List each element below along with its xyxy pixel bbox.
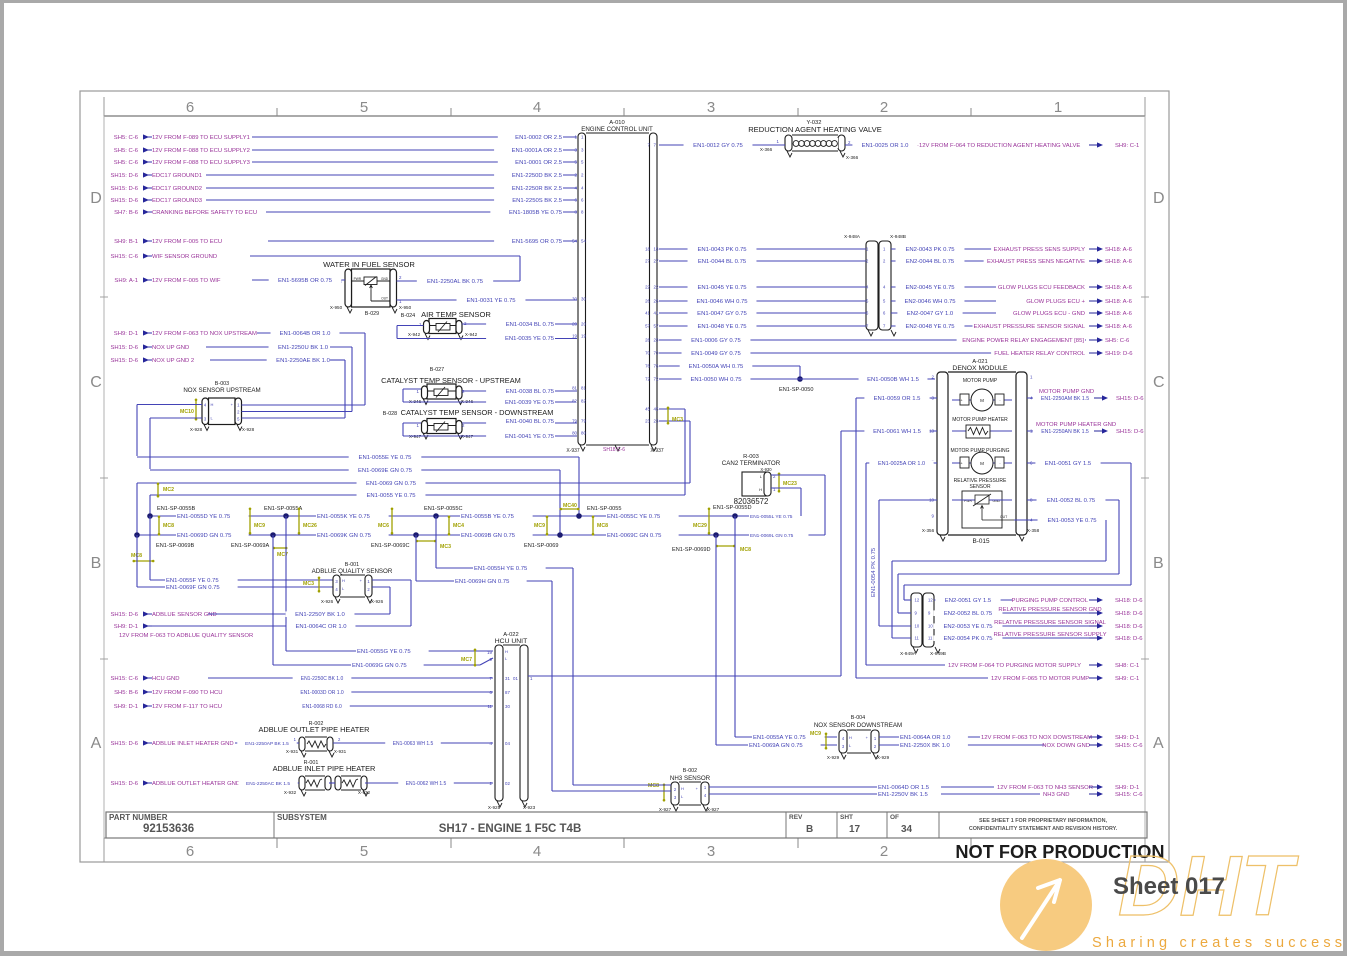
- drawing frame: [80, 91, 1169, 862]
- splice EN1-SP-0055: [576, 506, 621, 519]
- wire EN1-2250D: [206, 172, 577, 179]
- svg-text:SH15: D-6: SH15: D-6: [110, 612, 138, 618]
- wire label EN1-0055B: [460, 513, 533, 520]
- svg-text:SH18: D-6: SH18: D-6: [1115, 624, 1143, 630]
- denox pin numbers: [929, 375, 1035, 523]
- relative pressure sensor symbol: [952, 478, 1033, 528]
- svg-text:EN1-0059 OR 1.5: EN1-0059 OR 1.5: [874, 396, 922, 402]
- wire EN1-0025A purging supply: [866, 461, 937, 665]
- wire EN1-2250AP: [235, 741, 299, 747]
- svg-text:PWR: PWR: [354, 277, 362, 281]
- svg-text:CAN2 TERMINATOR: CAN2 TERMINATOR: [722, 460, 781, 467]
- node ADBLUE OUTLET HEATER GND input: [110, 780, 240, 787]
- svg-text:MC8: MC8: [740, 547, 751, 553]
- node 12V from F-063 to adblue quality sensor: [119, 633, 253, 639]
- svg-text:MC8: MC8: [163, 523, 174, 529]
- svg-text:B: B: [1153, 555, 1164, 572]
- svg-text:GLOW PLUGS ECU - GND: GLOW PLUGS ECU - GND: [1013, 311, 1085, 317]
- adblue quality sensor B-001: [312, 562, 393, 604]
- wire EN1-0055 to ECU pin 45: [150, 409, 685, 516]
- svg-text:EN1-0055K YE 0.75: EN1-0055K YE 0.75: [317, 514, 371, 520]
- svg-text:EN1-2250S BK 2.5: EN1-2250S BK 2.5: [512, 198, 562, 204]
- wire label EN1-0055D: [176, 513, 249, 520]
- svg-text:EN1-0001A OR 2.5: EN1-0001A OR 2.5: [512, 148, 563, 154]
- svg-text:18: 18: [645, 247, 650, 252]
- svg-text:82: 82: [581, 399, 586, 404]
- svg-text:EN1-1805B YE 0.75: EN1-1805B YE 0.75: [509, 210, 563, 216]
- wire EN2-0053 RELATIVE PRESSURE SENSOR SIGNAL: [915, 619, 1144, 630]
- svg-text:HCU GND: HCU GND: [152, 676, 180, 682]
- node ADBLUE SENSOR GND input: [110, 611, 216, 618]
- svg-text:SH18: D-6: SH18: D-6: [1115, 611, 1143, 617]
- column scale numbers top: [186, 99, 1062, 116]
- node 12V FROM F-090 TO HCU input: [114, 689, 222, 696]
- svg-text:SH9: D-1: SH9: D-1: [1115, 735, 1139, 741]
- svg-text:72: 72: [645, 377, 650, 382]
- svg-text:EN2-0051 GY 1.5: EN2-0051 GY 1.5: [945, 598, 992, 604]
- svg-text:EN1-0034 BL 0.75: EN1-0034 BL 0.75: [506, 322, 555, 328]
- svg-text:X-366: X-366: [760, 147, 773, 152]
- svg-text:NOX DOWN GND: NOX DOWN GND: [1042, 743, 1090, 749]
- svg-text:EN1-0006 GY 0.75: EN1-0006 GY 0.75: [691, 338, 741, 344]
- svg-text:PURGING PUMP CONTROL: PURGING PUMP CONTROL: [1012, 598, 1089, 604]
- wire EN1-0069F to adblue quality: [137, 535, 333, 591]
- svg-text:EN1-0069D GN 0.75: EN1-0069D GN 0.75: [177, 533, 232, 539]
- row letters: [90, 190, 1164, 752]
- svg-text:EN1-SP-0055B: EN1-SP-0055B: [157, 506, 196, 512]
- wire EN1-0050: [659, 376, 800, 383]
- twisted pair marks on splice buses: [131, 503, 751, 562]
- svg-text:H: H: [342, 578, 345, 583]
- svg-text:EN2-0045 YE 0.75: EN2-0045 YE 0.75: [905, 285, 955, 291]
- svg-text:SH15: D-6: SH15: D-6: [1116, 429, 1144, 435]
- svg-text:EDC17 GROUND3: EDC17 GROUND3: [152, 198, 203, 204]
- title block: [106, 812, 1147, 838]
- wire nh3 pins left: [552, 785, 671, 791]
- svg-text:MC29: MC29: [693, 523, 707, 529]
- svg-text:EN1-0055F YE 0.75: EN1-0055F YE 0.75: [166, 578, 219, 584]
- wire nox pin3 to bus: [150, 418, 202, 469]
- svg-text:MC3: MC3: [672, 417, 683, 423]
- wire EN1-2250X: [879, 742, 1143, 749]
- wire EN1-0012: [659, 142, 785, 149]
- svg-text:EN2-0052 BL 0.75: EN2-0052 BL 0.75: [944, 611, 993, 617]
- svg-text:H: H: [849, 735, 852, 740]
- svg-text:EN1-0045 YE 0.75: EN1-0045 YE 0.75: [697, 285, 747, 291]
- svg-text:X-950: X-950: [399, 305, 412, 310]
- svg-text:D: D: [90, 190, 102, 207]
- svg-text:SH15: C-6: SH15: C-6: [1115, 792, 1143, 798]
- node 12V FROM F-005 TO ECU input: [114, 238, 222, 245]
- NOX sensor downstream B-004: [814, 715, 902, 760]
- wire EN1-0047 / EN2-0047 GLOW PLUGS ECU - GND: [659, 310, 1133, 317]
- svg-text:EN2-0053 YE 0.75: EN2-0053 YE 0.75: [943, 624, 993, 630]
- wire nox pin4 to bus: [137, 405, 202, 457]
- watermark DHT logo: [1000, 839, 1299, 951]
- svg-text:SH9: D-1: SH9: D-1: [114, 624, 138, 630]
- wire EN1-0041: [403, 423, 577, 440]
- NOX sensor upstream B-003: [183, 381, 260, 432]
- svg-text:04: 04: [505, 741, 510, 746]
- svg-text:SH9: C-1: SH9: C-1: [1115, 676, 1139, 682]
- splice EN1-SP-0050: [779, 376, 814, 393]
- svg-text:12V FROM F-090 TO HCU: 12V FROM F-090 TO HCU: [152, 690, 223, 696]
- svg-text:EN1-2250AM BK 1.5: EN1-2250AM BK 1.5: [1041, 396, 1089, 402]
- twisted pair MC2: [157, 483, 174, 498]
- svg-text:NH3 SENSOR: NH3 SENSOR: [670, 775, 711, 782]
- wire EN1-0062: [365, 781, 493, 787]
- svg-text:SH5: C-6: SH5: C-6: [1105, 338, 1130, 344]
- svg-text:12V FROM F-088 TO ECU SUPPLY3: 12V FROM F-088 TO ECU SUPPLY3: [152, 160, 251, 166]
- svg-text:EN1-0025A OR 1.0: EN1-0025A OR 1.0: [878, 461, 925, 467]
- wire EN1-2250AE nox gnd 2: [210, 357, 345, 418]
- wire EN1-0069 to ECU pin 23: [137, 421, 690, 535]
- svg-text:SH15: C-6: SH15: C-6: [110, 254, 138, 260]
- svg-text:EXHAUST PRESS SENS SUPPLY: EXHAUST PRESS SENS SUPPLY: [994, 247, 1086, 253]
- svg-text:EN1-0055E YE 0.75: EN1-0055E YE 0.75: [359, 455, 413, 461]
- svg-text:MC3: MC3: [303, 581, 314, 587]
- svg-text:SUBSYSTEM: SUBSYSTEM: [277, 813, 327, 822]
- svg-text:EN1-0069 GN 0.75: EN1-0069 GN 0.75: [366, 481, 417, 487]
- svg-text:MOTOR PUMP GND: MOTOR PUMP GND: [1039, 389, 1094, 395]
- svg-text:SH8: C-1: SH8: C-1: [1115, 663, 1139, 669]
- svg-text:CATALYST TEMP SENSOR - DOWNSTR: CATALYST TEMP SENSOR - DOWNSTREAM: [401, 408, 554, 417]
- splice EN1-SP-0069B: [134, 532, 194, 549]
- svg-text:X-949A: X-949A: [900, 651, 917, 657]
- svg-text:EN1-2250AL BK 0.75: EN1-2250AL BK 0.75: [427, 279, 484, 285]
- svg-text:41: 41: [645, 311, 650, 316]
- svg-text:19: 19: [487, 650, 492, 655]
- svg-text:ADBLUE SENSOR GND: ADBLUE SENSOR GND: [152, 612, 217, 618]
- svg-text:MC40: MC40: [563, 503, 577, 509]
- svg-text:EN1-2250AN BK 1.5: EN1-2250AN BK 1.5: [1041, 429, 1089, 435]
- svg-text:EN1-0040 BL 0.75: EN1-0040 BL 0.75: [506, 419, 555, 425]
- svg-text:MC23: MC23: [783, 481, 797, 487]
- svg-text:EN1-0035 YE 0.75: EN1-0035 YE 0.75: [505, 336, 555, 342]
- svg-text:4: 4: [533, 843, 541, 860]
- wire EN1-0069H: [416, 535, 552, 791]
- wire label EN1-0055C: [606, 513, 679, 520]
- svg-text:CRANKING BEFORE SAFETY TO ECU: CRANKING BEFORE SAFETY TO ECU: [152, 210, 257, 216]
- wire EN1-0064A: [879, 734, 1139, 741]
- svg-text:MC3: MC3: [440, 544, 451, 550]
- twisted pair MC3 at B-001: [303, 577, 320, 593]
- svg-text:OUT: OUT: [381, 297, 388, 301]
- svg-text:SH18: A-6: SH18: A-6: [1105, 285, 1133, 291]
- svg-text:SH18: D-6: SH18: D-6: [1115, 598, 1143, 604]
- node 12V FROM F-089 TO ECU SUPPLY1 input: [114, 134, 250, 141]
- svg-text:EN1-0049 GY 0.75: EN1-0049 GY 0.75: [691, 351, 741, 357]
- svg-text:81: 81: [572, 386, 577, 391]
- node WIF SENSOR GROUND input: [110, 253, 217, 260]
- wire EN1-0061 heater supply: [841, 428, 937, 676]
- svg-text:EN1-SP-0055A: EN1-SP-0055A: [264, 506, 303, 512]
- splice EN1-SP-0055C: [424, 506, 463, 519]
- svg-text:70: 70: [654, 351, 659, 356]
- svg-text:X-950: X-950: [330, 305, 343, 310]
- svg-text:A: A: [91, 735, 102, 752]
- svg-text:NOX SENSOR DOWNSTREAM: NOX SENSOR DOWNSTREAM: [814, 722, 902, 729]
- svg-text:REDUCTION AGENT HEATING VALVE: REDUCTION AGENT HEATING VALVE: [748, 125, 882, 134]
- wire EN1-0039: [403, 389, 576, 406]
- svg-text:SH18: A-6: SH18: A-6: [1105, 311, 1133, 317]
- svg-text:EN1-0064C OR 1.0: EN1-0064C OR 1.0: [295, 624, 347, 630]
- svg-text:FUEL HEATER RELAY CONTROL: FUEL HEATER RELAY CONTROL: [994, 351, 1086, 357]
- svg-text:MOTOR PUMP: MOTOR PUMP: [963, 378, 998, 384]
- svg-text:D: D: [1153, 190, 1165, 207]
- wire EN1-0035: [397, 326, 577, 343]
- svg-text:17: 17: [849, 824, 861, 835]
- svg-text:SH15: C-6: SH15: C-6: [1115, 743, 1143, 749]
- svg-text:ADBLUE INLET HEATER GND: ADBLUE INLET HEATER GND: [152, 741, 234, 747]
- svg-text:X-358: X-358: [1027, 528, 1040, 533]
- connector X-949A X-949B: [900, 593, 946, 657]
- svg-text:SH5: C-6: SH5: C-6: [114, 160, 139, 166]
- svg-text:X-932: X-932: [284, 790, 297, 795]
- node ADBLUE INLET HEATER GND input: [110, 740, 233, 747]
- svg-text:2: 2: [880, 843, 888, 860]
- wire EN2-0051 PURGING PUMP CONTROL: [915, 597, 1144, 604]
- svg-text:EN1-0046 WH 0.75: EN1-0046 WH 0.75: [696, 299, 748, 305]
- svg-text:SH15: C-6: SH15: C-6: [110, 676, 138, 682]
- svg-text:H: H: [681, 786, 684, 791]
- wire EN1-0053: [892, 517, 1106, 638]
- svg-text:54: 54: [572, 239, 577, 244]
- svg-text:ADBLUE OUTLET PIPE HEATER: ADBLUE OUTLET PIPE HEATER: [258, 725, 369, 734]
- svg-text:EN1-2250X BK 1.0: EN1-2250X BK 1.0: [900, 743, 950, 749]
- svg-text:EN1-0025 OR 1.0: EN1-0025 OR 1.0: [862, 143, 910, 149]
- svg-text:72: 72: [654, 377, 659, 382]
- splice bus EN1-0055 row: [150, 515, 801, 517]
- splice EN1-SP-0069D: [672, 532, 719, 553]
- motor pump purging symbol: [951, 448, 1013, 474]
- svg-text:EN1-0055G YE 0.75: EN1-0055G YE 0.75: [357, 649, 411, 655]
- svg-text:AIR TEMP SENSOR: AIR TEMP SENSOR: [421, 310, 491, 319]
- svg-text:23: 23: [654, 419, 659, 424]
- svg-text:ENGINE CONTROL UNIT: ENGINE CONTROL UNIT: [581, 126, 653, 133]
- svg-text:6: 6: [186, 843, 194, 860]
- wire EN1-0055G to HCU: [286, 516, 493, 655]
- svg-text:EN1-0052 BL 0.75: EN1-0052 BL 0.75: [1047, 498, 1096, 504]
- wire EN1-0038: [462, 388, 577, 395]
- node CRANKING BEFORE SAFETY TO ECU input: [114, 209, 257, 216]
- svg-text:54: 54: [581, 239, 586, 244]
- svg-text:SH15: D-6: SH15: D-6: [110, 345, 138, 351]
- svg-text:EN1-0050A WH 0.75: EN1-0050A WH 0.75: [689, 364, 744, 370]
- svg-text:EN1-0003D OR 1.0: EN1-0003D OR 1.0: [300, 690, 344, 696]
- svg-text:+: +: [960, 399, 962, 403]
- svg-text:SH5: C-6: SH5: C-6: [114, 148, 139, 154]
- wire EN1-0054 sensor pwr: [871, 500, 937, 626]
- svg-text:X-925: X-925: [488, 805, 501, 810]
- wire EN1-0064B nox 12v: [242, 330, 366, 405]
- svg-text:EN1-2250AE BK 1.0: EN1-2250AE BK 1.0: [276, 358, 330, 364]
- svg-text:EN1-SP-0069D: EN1-SP-0069D: [672, 547, 711, 553]
- svg-text:EN1-0051 GY 1.5: EN1-0051 GY 1.5: [1045, 461, 1092, 467]
- svg-text:EN1-0069C GN 0.75: EN1-0069C GN 0.75: [607, 533, 662, 539]
- svg-text:6: 6: [186, 99, 194, 116]
- svg-text:X-928: X-928: [190, 427, 203, 432]
- svg-text:ADBLUE INLET PIPE HEATER: ADBLUE INLET PIPE HEATER: [273, 764, 376, 773]
- svg-text:EN1-0055D YE 0.75: EN1-0055D YE 0.75: [177, 514, 231, 520]
- node 12V to adblue quality sensor input: [114, 623, 152, 630]
- svg-text:12V FROM F-065 TO MOTOR PUMP: 12V FROM F-065 TO MOTOR PUMP: [991, 676, 1089, 682]
- svg-text:EN2-0043 PK 0.75: EN2-0043 PK 0.75: [905, 247, 955, 253]
- svg-text:C: C: [1153, 374, 1165, 391]
- svg-text:SENSOR: SENSOR: [969, 484, 991, 490]
- wire EN2-0054 RELATIVE PRESSURE SENSOR SUPPLY: [915, 631, 1144, 642]
- svg-text:10: 10: [928, 624, 933, 629]
- svg-text:20: 20: [581, 322, 586, 327]
- twisted pair MC3 at ECU: [667, 407, 683, 425]
- svg-text:EN1-0069E GN 0.75: EN1-0069E GN 0.75: [358, 468, 413, 474]
- svg-text:92153636: 92153636: [143, 823, 194, 835]
- svg-text:MC26: MC26: [303, 523, 317, 529]
- svg-text:CONFIDENTIALITY STATEMENT AND: CONFIDENTIALITY STATEMENT AND REVISION H…: [969, 826, 1118, 832]
- svg-text:EN1-0053 YE 0.75: EN1-0053 YE 0.75: [1047, 518, 1097, 524]
- splice EN1-SP-0055A: [264, 506, 303, 519]
- node 12V purging motor supply: [866, 662, 1139, 669]
- svg-text:EN1-SP-0055C: EN1-SP-0055C: [424, 506, 463, 512]
- svg-text:MC9: MC9: [534, 523, 545, 529]
- svg-text:SH15: D-6: SH15: D-6: [1116, 396, 1144, 402]
- node 12V to reduction agent heating valve: [917, 142, 1139, 149]
- svg-text:SH19: D-6: SH19: D-6: [1105, 351, 1133, 357]
- wire R-003 pin1 to 0055 bus: [771, 488, 801, 516]
- svg-text:EN1-0055B YE 0.75: EN1-0055B YE 0.75: [461, 514, 515, 520]
- svg-text:45: 45: [645, 407, 650, 412]
- node NOX UP GND 2 input: [110, 357, 194, 364]
- svg-text:23: 23: [645, 419, 650, 424]
- svg-text:EN1-SP-0055: EN1-SP-0055: [587, 506, 622, 512]
- watermark slogan: [1092, 935, 1342, 951]
- svg-text:MC9: MC9: [254, 523, 265, 529]
- wire EN1-0003D: [293, 690, 493, 696]
- wire EN1-2250Y adblue sensor gnd: [208, 587, 390, 618]
- wire EN1-0052: [898, 497, 1119, 613]
- svg-text:EN1-0069K GN 0.75: EN1-0069K GN 0.75: [317, 533, 372, 539]
- svg-text:EN1-SP-0069A: EN1-SP-0069A: [231, 543, 270, 549]
- svg-text:ADBLUE QUALITY SENSOR: ADBLUE QUALITY SENSOR: [312, 568, 393, 575]
- svg-text:EXHAUST PRESSURE SENSOR SIGNAL: EXHAUST PRESSURE SENSOR SIGNAL: [973, 324, 1085, 330]
- svg-text:M: M: [980, 398, 984, 403]
- svg-text:B-004: B-004: [851, 715, 865, 721]
- svg-text:SH9: A-1: SH9: A-1: [114, 278, 138, 284]
- svg-text:5: 5: [360, 843, 368, 860]
- motor pump heater symbol: [952, 417, 1012, 438]
- svg-text:SH15: D-6: SH15: D-6: [110, 198, 138, 204]
- svg-text:EN1-2250AP BK 1.5: EN1-2250AP BK 1.5: [245, 741, 289, 747]
- adblue inlet pipe heater R-001: [273, 760, 376, 796]
- not for production stamp: [955, 842, 1164, 862]
- svg-text:EN1-2250D BK 2.5: EN1-2250D BK 2.5: [512, 173, 563, 179]
- svg-text:B-002: B-002: [683, 768, 697, 774]
- svg-text:EN1-0054 PK 0.75: EN1-0054 PK 0.75: [871, 547, 877, 597]
- svg-text:X-949B: X-949B: [930, 651, 946, 657]
- svg-text:SH18: A-6: SH18: A-6: [1105, 247, 1133, 253]
- svg-text:SH9: B-1: SH9: B-1: [114, 239, 138, 245]
- svg-text:PART NUMBER: PART NUMBER: [109, 813, 168, 822]
- svg-text:76: 76: [645, 364, 650, 369]
- svg-text:ENGINE POWER RELAY ENGAGEMENT: ENGINE POWER RELAY ENGAGEMENT [85]: [962, 338, 1084, 344]
- svg-text:H: H: [211, 402, 214, 407]
- svg-text:1: 1: [1054, 99, 1062, 116]
- svg-text:4: 4: [533, 99, 541, 116]
- svg-text:X-927: X-927: [659, 807, 672, 812]
- svg-text:EN1-5695B OR 0.75: EN1-5695B OR 0.75: [278, 278, 333, 284]
- svg-text:SH15: D-6: SH15: D-6: [110, 173, 138, 179]
- wire EN1-2250AC: [238, 781, 335, 787]
- svg-text:EN1-0031 YE 0.75: EN1-0031 YE 0.75: [466, 298, 516, 304]
- svg-text:X-930: X-930: [760, 467, 772, 472]
- wire EN1-0025 valve supply: [845, 142, 918, 149]
- svg-text:X-928: X-928: [242, 427, 255, 432]
- svg-text:80: 80: [581, 431, 586, 436]
- x949 pin stubs: [879, 600, 911, 638]
- svg-text:REV: REV: [789, 814, 803, 821]
- wire EN1-0050B: [800, 376, 935, 383]
- wire EN1-0055H: [436, 516, 573, 785]
- svg-text:EN1-0069H GN 0.75: EN1-0069H GN 0.75: [455, 579, 510, 585]
- splice EN1-SP-0069A: [231, 532, 276, 549]
- wire label EN1-0069L: [749, 533, 808, 539]
- svg-text:MC9: MC9: [810, 731, 821, 737]
- svg-text:SEE SHEET 1 FOR PROPRIETARY IN: SEE SHEET 1 FOR PROPRIETARY INFORMATION,: [979, 818, 1107, 824]
- svg-text:EN2-0048 YE 0.75: EN2-0048 YE 0.75: [905, 324, 955, 330]
- svg-text:EDC17 GROUND1: EDC17 GROUND1: [152, 173, 202, 179]
- svg-text:SH7: B-6: SH7: B-6: [114, 210, 139, 216]
- svg-text:EN1-0069L GN 0.75: EN1-0069L GN 0.75: [750, 533, 794, 539]
- svg-text:SH5: C-6: SH5: C-6: [114, 135, 139, 141]
- svg-text:12V FROM F-064 TO PURGING MOTO: 12V FROM F-064 TO PURGING MOTOR SUPPLY: [948, 663, 1081, 669]
- svg-text:12V FROM F-063 TO NOX DOWSTREA: 12V FROM F-063 TO NOX DOWSTREAM: [981, 735, 1092, 741]
- svg-text:EN1-2250R BK 2.5: EN1-2250R BK 2.5: [512, 186, 563, 192]
- svg-text:EN1-0061 WH 1.5: EN1-0061 WH 1.5: [873, 429, 922, 435]
- wire EN1-5695B: [252, 277, 345, 284]
- svg-text:EN2-0047 GY 1.0: EN2-0047 GY 1.0: [907, 311, 954, 317]
- node 12V FROM F-063 TO NOX UPSTREAM input: [114, 330, 257, 337]
- svg-text:18: 18: [654, 247, 659, 252]
- svg-text:11: 11: [915, 636, 920, 641]
- node EDC17 GROUND1 input: [110, 172, 202, 179]
- svg-text:RELATIVE PRESSURE SENSOR SIGNA: RELATIVE PRESSURE SENSOR SIGNAL: [994, 620, 1107, 626]
- svg-text:SH5: B-6: SH5: B-6: [114, 690, 139, 696]
- svg-text:SH15: D-6: SH15: D-6: [110, 781, 138, 787]
- svg-text:11: 11: [928, 636, 933, 641]
- svg-text:57: 57: [654, 324, 659, 329]
- wire EN1-2250R: [206, 185, 577, 192]
- svg-text:B: B: [806, 824, 813, 835]
- svg-text:26: 26: [654, 299, 659, 304]
- adblue outlet pipe heater R-002: [258, 721, 369, 757]
- svg-text:NOX UP GND: NOX UP GND: [152, 345, 189, 351]
- svg-text:EN1-0050B WH 1.5: EN1-0050B WH 1.5: [867, 377, 919, 383]
- svg-text:SH15: D-6: SH15: D-6: [110, 741, 138, 747]
- svg-text:3: 3: [707, 843, 715, 860]
- motor pump symbol: [952, 378, 1012, 411]
- svg-text:X-929: X-929: [827, 755, 840, 760]
- wire EN1-2250V: [709, 791, 1143, 798]
- svg-text:SH17 - ENGINE 1 F5C T4B: SH17 - ENGINE 1 F5C T4B: [439, 823, 582, 835]
- svg-text:45: 45: [654, 407, 659, 412]
- node HCU GND input: [110, 675, 179, 682]
- wire EN1-2250AM motor pump gnd: [1027, 389, 1144, 402]
- svg-text:EN1-0064B OR 1.0: EN1-0064B OR 1.0: [280, 331, 331, 337]
- svg-text:EN1-0055C YE 0.75: EN1-0055C YE 0.75: [607, 514, 661, 520]
- svg-text:GND: GND: [381, 277, 389, 281]
- svg-text:12V FROM F-063 TO NH3 SENSOR: 12V FROM F-063 TO NH3 SENSOR: [997, 785, 1093, 791]
- splice EN1-SP-0055B: [147, 506, 195, 519]
